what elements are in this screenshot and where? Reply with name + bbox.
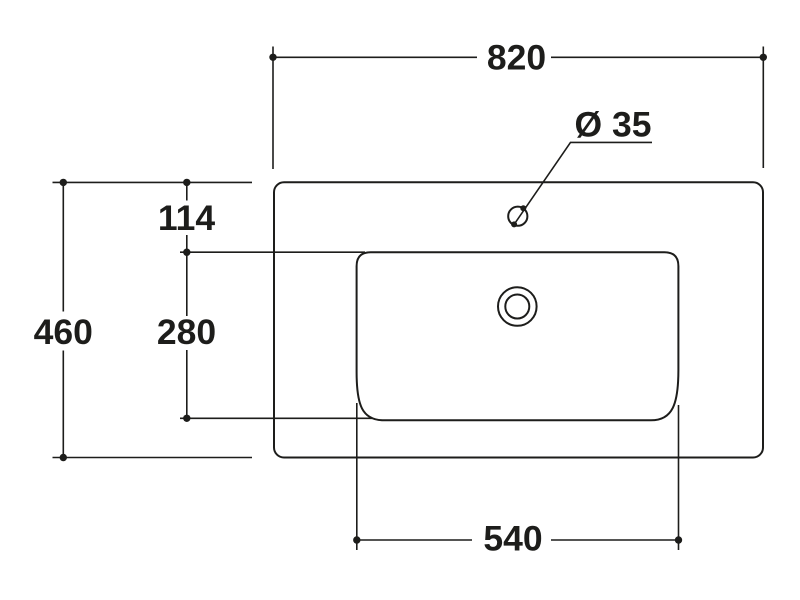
svg-text:540: 540 bbox=[483, 519, 542, 559]
svg-text:114: 114 bbox=[158, 198, 216, 238]
svg-text:820: 820 bbox=[487, 38, 546, 78]
svg-text:460: 460 bbox=[34, 312, 93, 352]
svg-text:280: 280 bbox=[157, 312, 216, 352]
svg-text:Ø 35: Ø 35 bbox=[575, 104, 652, 144]
